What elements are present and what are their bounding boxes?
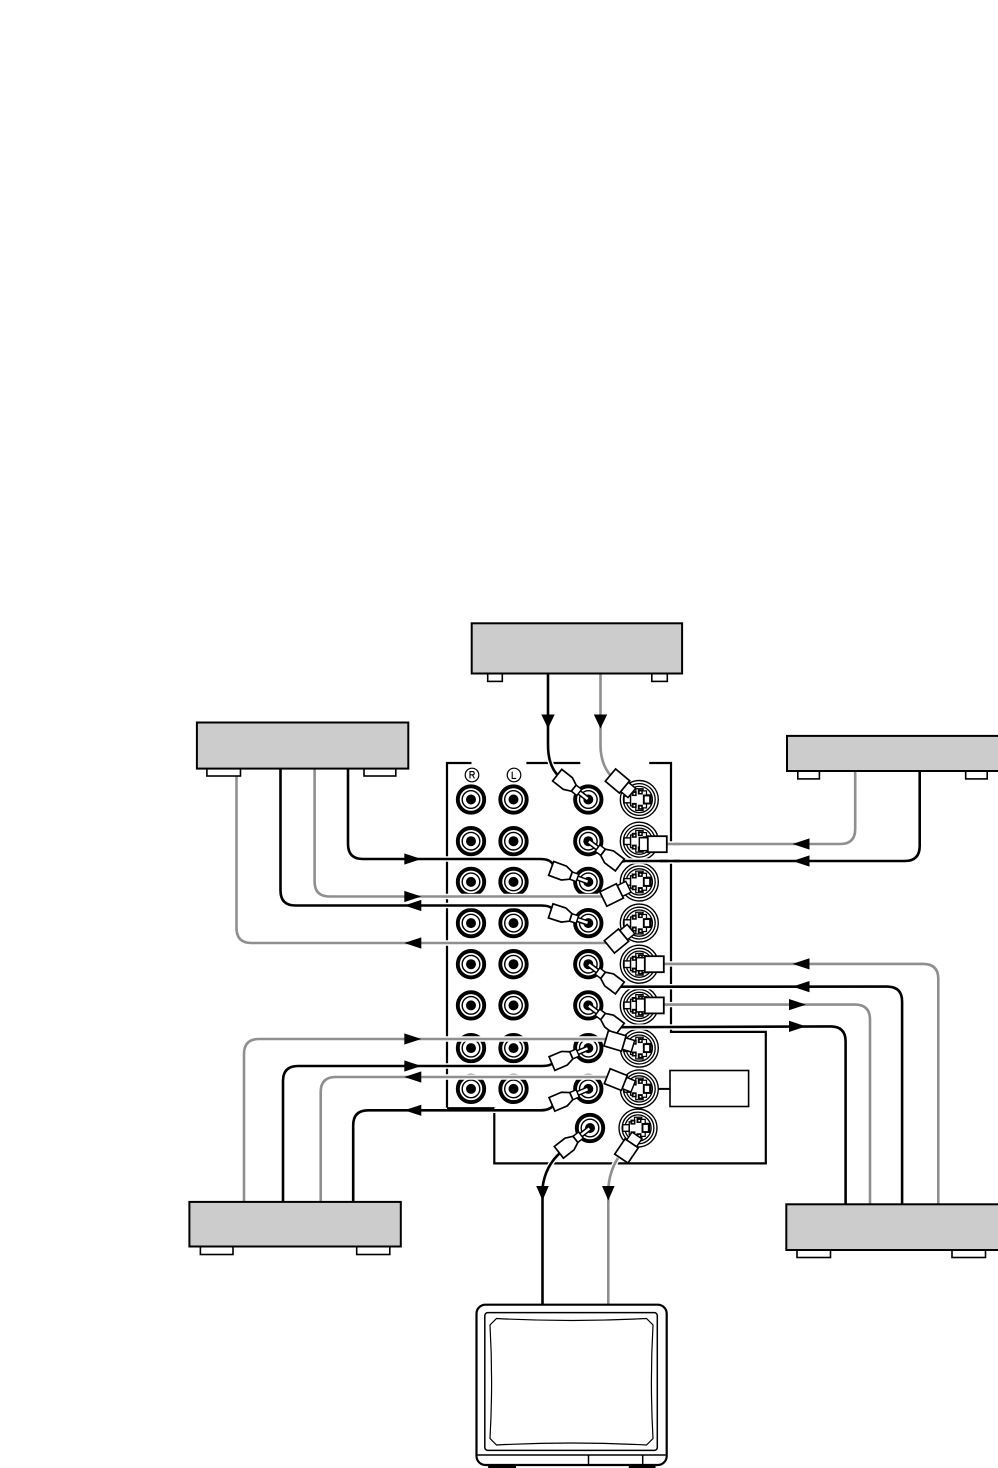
arrow right W5 — [404, 1033, 421, 1044]
bottom-right device box — [786, 1204, 998, 1250]
wire W12 gray bottom-right to row6 s-video — [662, 1005, 870, 1206]
audio R jack row4 — [458, 910, 484, 936]
S-video plug monitor — [615, 1131, 644, 1163]
label R — [465, 768, 479, 782]
composite video jack row6 — [575, 992, 601, 1018]
S-video plug row4 — [604, 923, 636, 953]
wire W9 gray top-right to row2 s-video — [664, 769, 855, 844]
arrow left W4 — [404, 937, 421, 948]
wire W4 gray top-left to row4 s-video — [237, 766, 612, 943]
wire W2 gray top-left to row3 s-video — [315, 766, 604, 897]
arrow right W1 — [404, 853, 421, 864]
receiver rear panel outline — [447, 763, 766, 1163]
composite video jack row3 — [575, 869, 601, 895]
S-video jack row2 — [620, 822, 658, 860]
wire W1 black top-left to row3 video — [348, 766, 553, 864]
wire W5 gray bottom-left to row7 s-video — [244, 1039, 607, 1204]
top-center device feet — [488, 671, 503, 681]
wire W16 gray top-center to row1 s-video — [601, 671, 612, 776]
arrow down W17 — [536, 1186, 549, 1201]
S-video jack row8 — [620, 1070, 658, 1108]
audio R jack row1 — [458, 786, 484, 812]
wire W17 black monitor video to TV — [543, 1152, 562, 1306]
audio L jack row7 — [500, 1035, 526, 1061]
RCA plug row3 video — [549, 861, 591, 888]
redraw panel bottom-left border segment — [447, 1107, 494, 1109]
top-left device feet — [207, 766, 241, 776]
arrow down W18 — [602, 1186, 615, 1201]
composite video jack row4 — [575, 910, 601, 936]
wire W7 gray bottom-left to row8 s-video — [321, 1077, 609, 1204]
wire W18 gray monitor s-video to TV — [608, 1158, 618, 1306]
wire W3 black top-left to row4 video — [281, 766, 554, 910]
RCA plug row6 video — [584, 999, 624, 1035]
arrow left W9 — [793, 838, 810, 849]
RCA plug row7 video — [549, 1041, 591, 1070]
bottom-right device feet — [797, 1248, 831, 1258]
RCA plug row2 video — [584, 835, 624, 871]
redraw row2 cables over clearing — [660, 843, 680, 846]
arrow left W13 — [793, 981, 810, 992]
arrow left W10 — [793, 855, 810, 866]
audio R jack row5 — [458, 951, 484, 977]
S-video plug row8 — [604, 1069, 636, 1094]
S-video plug row7 — [604, 1031, 635, 1054]
audio R jack row7 — [458, 1035, 484, 1061]
RCA plug row5 video — [584, 958, 624, 994]
top-left device box — [197, 723, 408, 769]
S-video plug row2 horizontal — [639, 836, 667, 852]
S-video jack row3 — [620, 863, 658, 901]
RCA plug row8 video — [549, 1082, 591, 1111]
composite video jack row5 — [575, 951, 601, 977]
top-right device box — [787, 736, 998, 771]
audio L jack row4 — [500, 910, 526, 936]
audio R jack row6 — [458, 992, 484, 1018]
arrow right W6 — [404, 1060, 421, 1071]
arrow right W2 — [404, 891, 421, 902]
S-video plug row6 horizontal — [636, 997, 664, 1013]
wire W14 gray bottom-right to row5 s-video — [662, 964, 938, 1206]
audio L jack row8 — [500, 1076, 526, 1102]
monitor out label box — [670, 1071, 749, 1107]
wire label box to S-video monitor jack — [656, 1088, 670, 1090]
label L — [507, 768, 521, 782]
S-video jack row1 — [620, 781, 658, 819]
arrow down W15 — [541, 715, 554, 729]
bottom-left device feet — [200, 1244, 233, 1255]
wire W8 black bottom-left to row8 video — [353, 1106, 553, 1205]
audio L jack row3 — [500, 869, 526, 895]
monitor video jack — [577, 1115, 603, 1141]
S-video plug row3 — [600, 880, 632, 907]
S-video jack row7 — [620, 1029, 658, 1067]
wire W15 black top-center to row1 video — [548, 671, 559, 777]
top-center device box — [472, 623, 682, 673]
audio L jack row6 — [500, 992, 526, 1018]
audio L jack row2 — [500, 828, 526, 854]
composite video jack row1 — [575, 786, 601, 812]
arrow left W14 — [793, 958, 810, 969]
RCA plug monitor video — [554, 1122, 594, 1158]
arrow left W3 — [404, 900, 421, 911]
monitor S-video jack — [619, 1109, 657, 1147]
wire W10 black top-right to row2 video — [618, 769, 920, 863]
S-video plug row5 horizontal — [636, 956, 664, 972]
TV monitor — [477, 1305, 667, 1468]
S-video jack row5 — [620, 945, 658, 983]
audio L jack row1 — [500, 786, 526, 812]
arrow left W7 — [404, 1071, 421, 1082]
RCA plug row1 video — [553, 769, 593, 805]
arrow right W12 — [789, 999, 806, 1010]
S-video plug row1 — [605, 769, 637, 799]
wire W6 black bottom-left to row7 video — [283, 1061, 555, 1204]
composite video jack row7 — [575, 1035, 601, 1061]
composite video jack row8 — [575, 1076, 601, 1102]
S-video jack row6 — [620, 986, 658, 1024]
white clearing where row2 cables cross right border — [669, 842, 674, 863]
arrow right W11 — [789, 1021, 806, 1032]
S-video jack row4 — [620, 904, 658, 942]
audio L jack row5 — [500, 951, 526, 977]
audio R jack row8 — [458, 1076, 484, 1102]
composite video jack row2 — [575, 828, 601, 854]
panel top border middle segment — [526, 762, 580, 764]
wire W13 black bottom-right to row5 video — [618, 987, 902, 1206]
audio R jack row2 — [458, 828, 484, 854]
arrow down W16 — [594, 715, 607, 729]
bottom-left device box — [189, 1202, 400, 1247]
RCA plug row4 video — [548, 904, 590, 930]
top-right device feet — [798, 768, 820, 779]
arrow left W8 — [404, 1105, 421, 1116]
audio R jack row3 — [458, 869, 484, 895]
wire W11 black bottom-right to row6 video — [618, 1026, 846, 1206]
